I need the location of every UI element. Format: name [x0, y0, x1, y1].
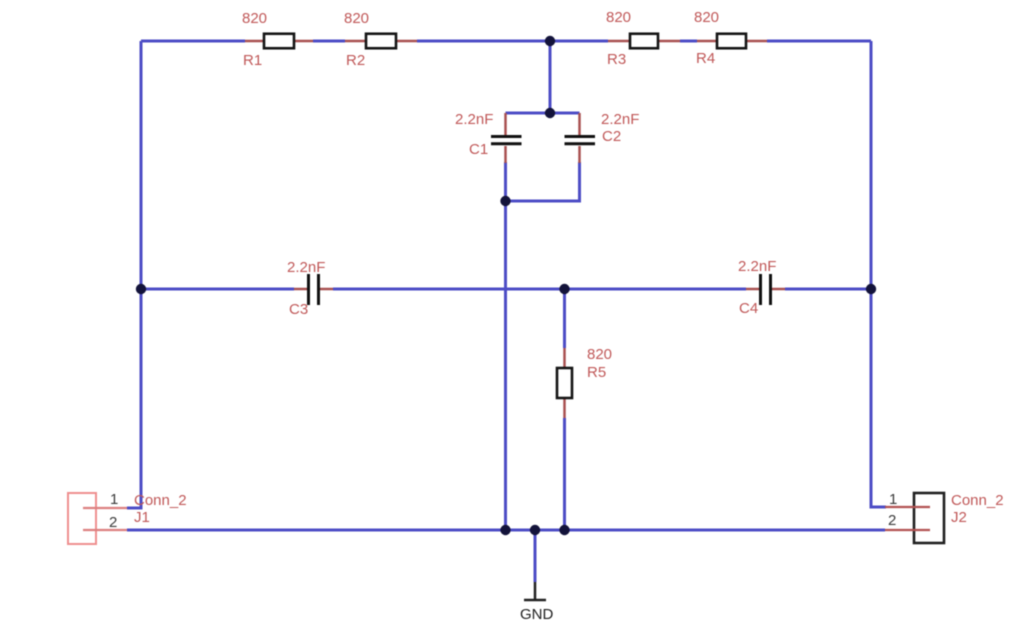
svg-text:2.2nF: 2.2nF [601, 111, 639, 128]
svg-text:2.2nF: 2.2nF [455, 111, 493, 128]
resistor R4 [694, 9, 767, 67]
ground [520, 582, 554, 623]
svg-text:C1: C1 [469, 141, 488, 158]
junction ground tap [530, 525, 540, 535]
wire top-center stem down to capacitor header [549, 41, 552, 113]
wire capacitor header C1-C2 [506, 112, 580, 115]
svg-text:2.2nF: 2.2nF [287, 259, 325, 276]
svg-text:C3: C3 [289, 301, 308, 318]
wire mid rail R5 junction to C4 [565, 288, 747, 291]
svg-text:Conn_2: Conn_2 [134, 492, 187, 509]
svg-text:C4: C4 [739, 300, 758, 317]
connector J2 [885, 491, 1004, 543]
svg-text:2: 2 [109, 514, 117, 531]
capacitor C1 [455, 111, 522, 163]
svg-text:R1: R1 [243, 52, 262, 69]
resistor R3 [606, 9, 680, 68]
svg-text:R2: R2 [346, 52, 365, 69]
junction top-center [545, 36, 555, 46]
wire mid rail right of C4 [785, 288, 871, 291]
capacitor C3 [287, 259, 333, 318]
connector J1 [68, 491, 187, 544]
wire C1 bottom lead [504, 162, 507, 201]
svg-text:R4: R4 [696, 50, 715, 67]
junction mid-left rail [136, 284, 146, 294]
wire right rail vertical [871, 41, 886, 507]
wire mid rail left of C3 [141, 288, 294, 291]
svg-text:R3: R3 [607, 51, 626, 68]
capacitor C4 [738, 258, 785, 317]
wire bottom rail [127, 529, 885, 532]
capacitor C2 [565, 111, 640, 163]
wire C2 bottom lead and return [506, 162, 580, 201]
wire R5 bottom lead [563, 418, 566, 530]
wire between R3 and R4 [680, 40, 697, 43]
svg-text:2: 2 [888, 512, 896, 529]
svg-text:820: 820 [242, 10, 267, 27]
resistor R2 [344, 10, 417, 69]
wire center vertical (C1/C2 junction to bottom rail) [504, 201, 507, 530]
wire R4 to right rail [767, 40, 871, 43]
resistor R1 [242, 10, 313, 69]
svg-text:Conn_2: Conn_2 [951, 492, 1004, 509]
wire ground stem [534, 530, 537, 582]
junction capacitor header [545, 108, 555, 118]
wire top-center junction to R3 [550, 40, 608, 43]
wire mid rail C3 to R5 junction [333, 288, 565, 291]
wire left rail vertical [127, 41, 141, 508]
wire R2 to top-center junction [417, 40, 550, 43]
resistor R5 [557, 346, 612, 418]
svg-text:1: 1 [110, 491, 118, 508]
svg-text:C2: C2 [602, 128, 621, 145]
svg-text:GND: GND [520, 606, 554, 623]
wire R5 top lead [563, 289, 566, 348]
wire between R1 and R2 [313, 40, 345, 43]
junction center vertical at bottom rail [500, 525, 510, 535]
svg-text:J1: J1 [134, 509, 150, 526]
svg-text:820: 820 [587, 346, 612, 363]
svg-text:820: 820 [694, 9, 719, 26]
svg-text:820: 820 [606, 9, 631, 26]
svg-text:1: 1 [889, 491, 897, 508]
junction mid-right rail [866, 284, 876, 294]
wire top-left segment (left rail to R1) [141, 40, 245, 43]
svg-text:J2: J2 [951, 509, 967, 526]
junction C1/C2 bottom [500, 196, 510, 206]
svg-text:820: 820 [344, 10, 369, 27]
junction R5 bottom [559, 525, 569, 535]
svg-text:R5: R5 [587, 364, 606, 381]
svg-text:2.2nF: 2.2nF [738, 258, 776, 275]
junction R5 top [559, 284, 569, 294]
